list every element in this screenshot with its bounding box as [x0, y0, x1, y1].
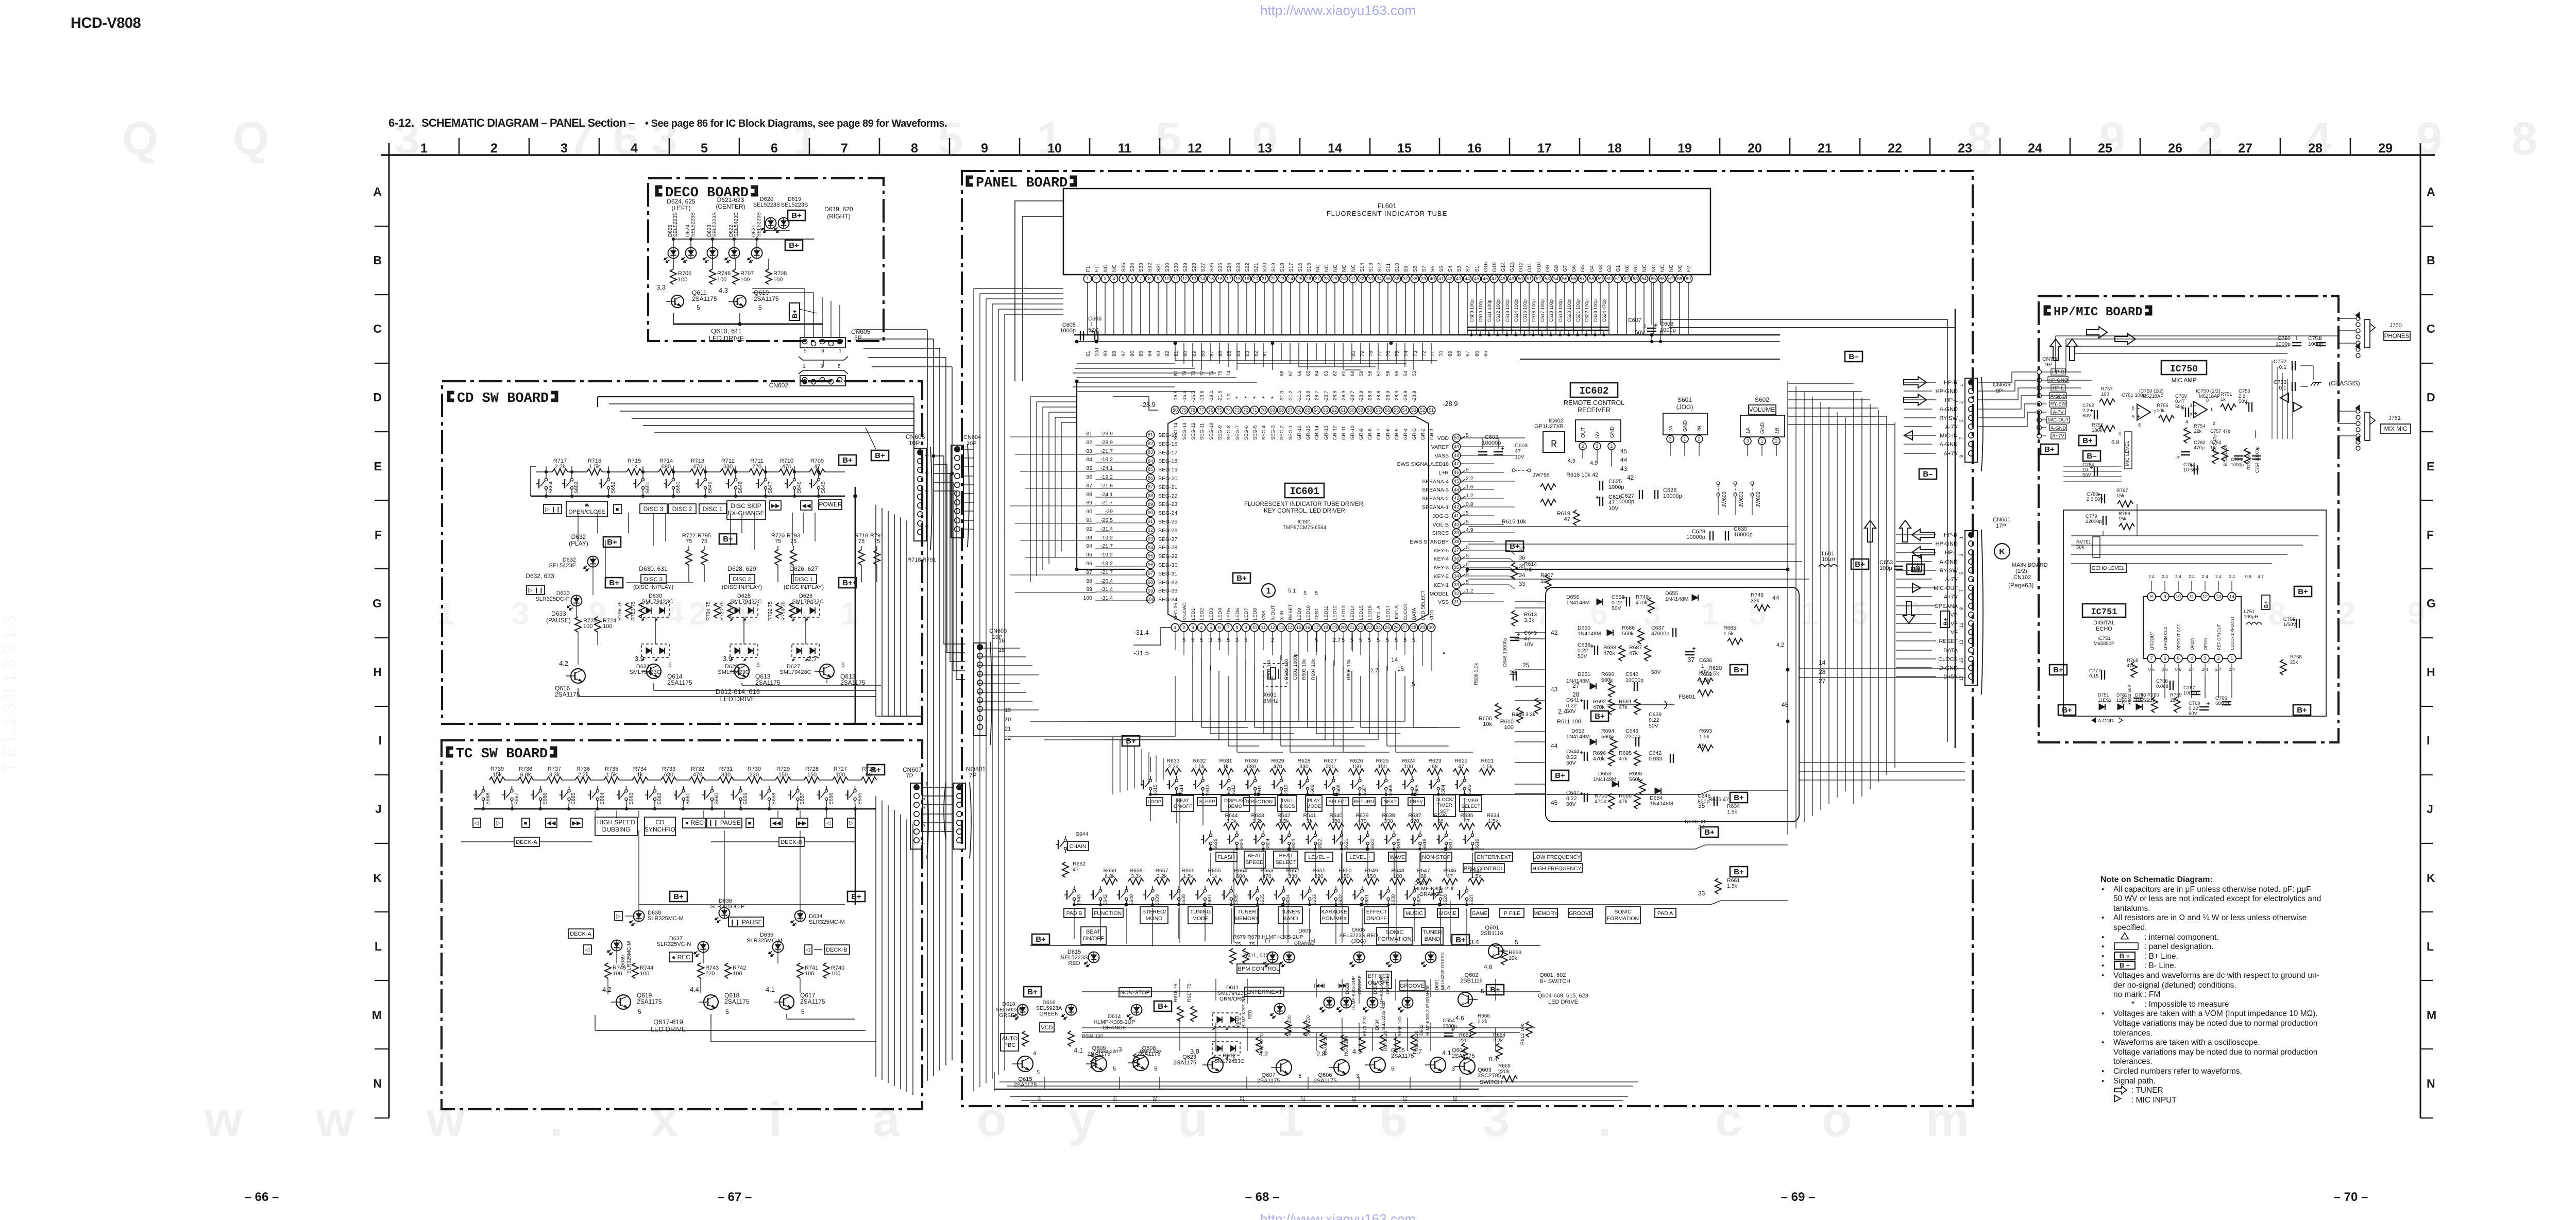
- svg-text:S1: S1: [1475, 265, 1480, 272]
- svg-text:71: 71: [1252, 408, 1257, 413]
- svg-text:GR-7: GR-7: [1376, 428, 1382, 440]
- svg-text:ECHO: ECHO: [2096, 626, 2112, 632]
- B+ rotated cn: [1940, 611, 1950, 628]
- key BEAT: [1244, 851, 1265, 868]
- resistor: [1062, 862, 1069, 877]
- resistor: [1128, 878, 1144, 885]
- svg-text:97: 97: [1086, 569, 1092, 575]
- wire: [674, 471, 690, 472]
- svg-text:GND: GND: [1609, 427, 1615, 438]
- svg-text:7: 7: [1139, 276, 1142, 281]
- svg-text:CHAIN: CHAIN: [1070, 843, 1087, 850]
- resistor: [1502, 1076, 1517, 1082]
- wire: [642, 471, 658, 472]
- svg-text:S617: S617: [1448, 839, 1454, 850]
- svg-text:3: 3: [1104, 276, 1106, 281]
- LED: [1341, 997, 1352, 1008]
- capacitor: [1654, 490, 1655, 499]
- svg-text:2.7: 2.7: [1333, 637, 1341, 643]
- svg-text:(CHASSIS): (CHASSIS): [2329, 380, 2360, 387]
- wire: [1179, 798, 1180, 943]
- svg-text:NC: NC: [1677, 265, 1683, 272]
- bus line 3: [1520, 359, 1780, 360]
- wire: [876, 546, 877, 550]
- svg-text:T E L 1 3 9 1 3 9 1 3: T E L 1 3 9 1 3 9 1 3: [0, 615, 20, 773]
- column tick 26: [2210, 138, 2211, 155]
- svg-text:EFFECT: EFFECT: [1368, 973, 1390, 979]
- row tick left: [375, 843, 389, 844]
- svg-text:SLR325MC-M: SLR325MC-M: [626, 941, 632, 974]
- wire to CN605: [813, 293, 814, 337]
- svg-text:JOG-A: JOG-A: [1394, 605, 1400, 620]
- svg-text:50: 50: [1518, 276, 1523, 281]
- svg-text:G13: G13: [1510, 262, 1515, 272]
- svg-text:X-IN: X-IN: [1279, 611, 1285, 620]
- svg-text:SML79423C: SML79423C: [629, 669, 660, 675]
- svg-text:9: 9: [1244, 625, 1247, 630]
- svg-text:NC: NC: [1324, 265, 1330, 272]
- svg-text:4: 4: [1033, 1050, 1036, 1057]
- svg-text:42: 42: [1551, 629, 1558, 636]
- svg-text:Q: Q: [122, 113, 158, 165]
- wire: [1799, 780, 1965, 781]
- wire bus: [578, 696, 876, 697]
- bus wire: [888, 805, 889, 1083]
- svg-text:4.2: 4.2: [1259, 1050, 1268, 1058]
- key ENTER/NEXT led: [1245, 987, 1284, 996]
- svg-text:B+: B+: [2044, 445, 2055, 454]
- svg-text:S651: S651: [645, 481, 651, 494]
- key GROOVE: [1568, 908, 1592, 918]
- resistor: [2212, 448, 2218, 464]
- svg-text:S14: S14: [1360, 263, 1365, 272]
- svg-text:⏏: ⏏: [584, 502, 589, 508]
- svg-text:K: K: [1999, 548, 2005, 556]
- key TIMER: [1460, 795, 1482, 811]
- svg-text:SONIC: SONIC: [1614, 909, 1632, 915]
- wire: [1904, 435, 1936, 436]
- B- opamp: [2083, 451, 2100, 461]
- svg-text:: Impossible to measure: : Impossible to measure: [2144, 1000, 2229, 1009]
- svg-text:R604 10k: R604 10k: [1311, 659, 1316, 680]
- wire: [2287, 379, 2288, 439]
- svg-text:44: 44: [1454, 487, 1459, 493]
- capacitor: [1599, 327, 1608, 328]
- resistor: [790, 550, 796, 565]
- B+ deco top: [788, 210, 805, 221]
- resistor: [1359, 1037, 1365, 1053]
- row tick left: [375, 431, 389, 432]
- svg-text:5.1: 5.1: [1288, 588, 1296, 594]
- capacitor: [1639, 490, 1640, 499]
- column tick 15: [1439, 138, 1440, 155]
- svg-text:S645: S645: [821, 481, 826, 494]
- wire: [2063, 476, 2122, 477]
- svg-text:1: 1: [803, 364, 806, 369]
- svg-text:96: 96: [1130, 350, 1136, 357]
- svg-text:RY-SW: RY-SW: [2050, 401, 2066, 407]
- svg-text:11: 11: [1959, 623, 1964, 628]
- svg-text:GR-8: GR-8: [1367, 428, 1373, 440]
- resistor: [733, 269, 739, 284]
- svg-text:57: 57: [1580, 276, 1585, 281]
- svg-text:22000p: 22000p: [2086, 519, 2102, 524]
- svg-text:GR-16: GR-16: [1297, 426, 1302, 440]
- board title DECO BOARD: [655, 185, 662, 196]
- svg-text:B+: B+: [791, 211, 802, 220]
- svg-text:1N4148M: 1N4148M: [1650, 801, 1673, 807]
- svg-text:3: 3: [1118, 1045, 1122, 1053]
- svg-text:68: 68: [1279, 408, 1284, 413]
- svg-text:PON/MPX: PON/MPX: [1322, 916, 1347, 922]
- svg-text:(▶▶): (▶▶): [1337, 983, 1349, 989]
- diode: [1590, 739, 1596, 745]
- svg-text:43: 43: [1454, 496, 1459, 501]
- svg-text:VOLUME: VOLUME: [1749, 406, 1775, 413]
- label DECK-B 2: [824, 945, 850, 954]
- svg-text:S27: S27: [1200, 263, 1206, 272]
- wire: [530, 466, 531, 496]
- svg-text:61: 61: [1341, 370, 1347, 376]
- svg-text:S22: S22: [1245, 263, 1250, 272]
- switch: [1064, 839, 1066, 841]
- wire: [1896, 587, 1936, 588]
- wire: [483, 804, 484, 809]
- svg-text:98: 98: [1148, 580, 1153, 585]
- svg-text:13: 13: [2216, 594, 2221, 599]
- resistor: [1180, 878, 1196, 885]
- svg-text:•: •: [2102, 942, 2104, 951]
- B+ wire: [855, 809, 856, 905]
- key GAME: [1471, 908, 1488, 918]
- svg-text:LED SELECT: LED SELECT: [1420, 590, 1426, 620]
- svg-text:HP-GND: HP-GND: [1936, 541, 1958, 547]
- svg-text:6: 6: [771, 141, 778, 156]
- wire: [688, 546, 689, 550]
- svg-text:75: 75: [701, 538, 707, 545]
- svg-text:S7: S7: [1421, 265, 1427, 272]
- resistor: [776, 603, 782, 618]
- svg-text:B+: B+: [609, 579, 619, 587]
- resistor: [727, 603, 734, 618]
- svg-text:1000p: 1000p: [1443, 1024, 1457, 1029]
- deck-a line: [461, 841, 514, 842]
- svg-text:MIC-OUT: MIC-OUT: [2048, 417, 2069, 423]
- svg-text:47: 47: [1564, 516, 1570, 522]
- transistor: [1430, 1057, 1446, 1073]
- svg-text:75: 75: [1249, 941, 1255, 947]
- svg-text:*: *: [1244, 395, 1247, 402]
- svg-text:N: N: [373, 1077, 382, 1090]
- resistor: [779, 469, 794, 475]
- key LOW FREQUENCY: [1533, 852, 1581, 861]
- svg-text:CN604: CN604: [963, 434, 981, 440]
- wire: [861, 546, 862, 550]
- svg-text:G3: G3: [1598, 265, 1604, 272]
- svg-text:9: 9: [1157, 276, 1159, 281]
- bus wire: [894, 514, 895, 716]
- bracket: [944, 782, 946, 840]
- svg-text:56: 56: [1385, 408, 1390, 413]
- svg-text:DATA: DATA: [1943, 648, 1958, 654]
- svg-text:NC: NC: [1351, 265, 1357, 272]
- svg-text:25: 25: [2098, 141, 2112, 156]
- svg-text:IC601: IC601: [1298, 519, 1312, 525]
- svg-text:S29: S29: [1183, 263, 1189, 272]
- wire: [861, 565, 862, 582]
- wire to CN605: [831, 301, 832, 337]
- key fwd marker: [615, 911, 622, 921]
- svg-text:9: 9: [1959, 607, 1964, 610]
- net A+7V cn750: [2051, 433, 2065, 439]
- svg-text:NC: NC: [1342, 265, 1347, 272]
- wire: [1799, 668, 1965, 669]
- svg-text:D: D: [373, 391, 382, 404]
- wire: [1896, 614, 1932, 615]
- switch: [1178, 889, 1180, 892]
- svg-text:-21.7: -21.7: [1100, 500, 1113, 506]
- svg-text:◀◀: ◀◀: [547, 820, 556, 826]
- key DISC 2: [669, 504, 696, 514]
- svg-text:5: 5: [1037, 1070, 1040, 1076]
- svg-text:0.9: 0.9: [2245, 574, 2251, 579]
- svg-text:-28.9: -28.9: [1385, 391, 1391, 402]
- svg-text:B+: B+: [2297, 706, 2307, 715]
- svg-text:S656: S656: [828, 792, 834, 805]
- svg-text:33: 33: [1368, 276, 1373, 281]
- switch: [854, 789, 856, 792]
- svg-text:45: 45: [1782, 701, 1789, 708]
- resistor: [874, 550, 880, 565]
- svg-text:66: 66: [1475, 350, 1480, 357]
- svg-text:SLEEP: SLEEP: [1199, 799, 1215, 805]
- svg-text:8: 8: [2150, 594, 2153, 599]
- svg-text:81: 81: [1086, 431, 1092, 437]
- junction: [704, 495, 706, 497]
- crystal X601: [1263, 664, 1287, 686]
- svg-text:41: 41: [1438, 276, 1444, 281]
- svg-text:100: 100: [773, 277, 783, 283]
- svg-text:B: B: [373, 253, 382, 267]
- wire: [608, 493, 609, 496]
- LED: [588, 556, 599, 567]
- svg-text:w: w: [204, 1092, 243, 1147]
- tube bus: [1074, 334, 1780, 335]
- wire: [562, 780, 575, 781]
- svg-text:•: •: [2102, 913, 2104, 922]
- svg-text:F1: F1: [1094, 266, 1100, 272]
- transistor: [734, 295, 746, 308]
- key TUNER BAND led: [1421, 927, 1443, 945]
- resistor: [1459, 823, 1475, 829]
- svg-text:SEG-17: SEG-17: [1158, 450, 1178, 456]
- svg-text:65: 65: [1651, 276, 1656, 281]
- svg-text:KEY-5: KEY-5: [1434, 548, 1449, 554]
- svg-text:B+: B+: [1704, 828, 1715, 837]
- svg-text:BEAT: BEAT: [1086, 929, 1100, 935]
- svg-text:72: 72: [1243, 408, 1248, 413]
- capacitor: [1714, 797, 1715, 806]
- wire: [648, 780, 661, 781]
- svg-text:c: c: [1715, 1092, 1742, 1147]
- svg-text:-31.4: -31.4: [1100, 595, 1113, 601]
- svg-text:SEL5223S: SEL5223S: [753, 202, 781, 208]
- capacitor: [1094, 331, 1095, 341]
- B+ led3: [1154, 1001, 1172, 1011]
- svg-text:18: 18: [1607, 141, 1622, 156]
- B+ cd led: [603, 537, 621, 547]
- resistor: [1639, 780, 1646, 795]
- svg-text:55: 55: [1394, 370, 1400, 376]
- svg-text:P FILE: P FILE: [1504, 910, 1520, 917]
- wire: [712, 239, 713, 247]
- wire: [505, 780, 518, 781]
- resistor: [1517, 707, 1523, 723]
- svg-text:OUT: OUT: [1581, 427, 1586, 438]
- column tick 21: [1859, 138, 1861, 155]
- svg-text:SEG-29: SEG-29: [1158, 553, 1178, 560]
- svg-text:2SA1175: 2SA1175: [1452, 1053, 1475, 1059]
- svg-text:30: 30: [1341, 276, 1346, 281]
- svg-text:D632: D632: [571, 533, 586, 540]
- signal arrow: [1904, 394, 1926, 405]
- svg-text:STEREO/: STEREO/: [1142, 909, 1166, 915]
- svg-text:2SA1175: 2SA1175: [724, 998, 750, 1005]
- switch: [1471, 834, 1473, 836]
- svg-text:15k: 15k: [2119, 516, 2127, 522]
- svg-text:10k: 10k: [1509, 955, 1518, 961]
- svg-text:SIRCS: SIRCS: [1432, 530, 1449, 536]
- svg-text:3: 3: [1959, 401, 1964, 404]
- wire to CN605: [822, 297, 823, 337]
- svg-text:3.4: 3.4: [1441, 984, 1450, 992]
- key AUTO PBC: [1001, 1033, 1019, 1051]
- net HP-L cn750: [2051, 385, 2065, 391]
- svg-text:VDD: VDD: [1429, 610, 1435, 620]
- svg-text:C615 100p: C615 100p: [1522, 299, 1528, 322]
- LED: [634, 911, 645, 922]
- svg-text:B+: B+: [1027, 988, 1038, 996]
- svg-text:DIRECTION: DIRECTION: [1246, 799, 1273, 805]
- wire: [787, 1019, 855, 1020]
- svg-text:TIMER: TIMER: [1437, 803, 1452, 808]
- svg-text:95: 95: [1086, 552, 1092, 558]
- svg-text:73: 73: [1234, 408, 1240, 413]
- svg-text:SEG-26: SEG-26: [1158, 528, 1178, 534]
- svg-text:70: 70: [1261, 408, 1266, 413]
- svg-text:5: 5: [1959, 419, 1964, 422]
- svg-text:100μH: 100μH: [2244, 614, 2258, 620]
- svg-text:B+: B+: [789, 241, 799, 250]
- svg-text:S628: S628: [1443, 894, 1448, 906]
- svg-text:SLR325MC-M: SLR325MC-M: [648, 916, 684, 922]
- svg-text:66: 66: [1659, 276, 1665, 281]
- svg-text:D624, 625: D624, 625: [667, 198, 696, 205]
- switch: [1099, 889, 1101, 892]
- svg-text:S12: S12: [1377, 263, 1383, 272]
- svg-text:9: 9: [924, 525, 929, 528]
- IC751 area box: [2063, 510, 2326, 716]
- svg-text:S659: S659: [743, 792, 749, 805]
- svg-text:50V: 50V: [1651, 669, 1661, 675]
- svg-text:IC750: IC750: [2170, 364, 2198, 375]
- capacitor: [2194, 465, 2195, 475]
- svg-text:50V: 50V: [1578, 653, 1587, 659]
- key SLEEP: [1197, 798, 1216, 806]
- key OPEN/CLOSE: [566, 501, 607, 517]
- key MUSIC: [1404, 908, 1425, 918]
- svg-text:65: 65: [1306, 370, 1311, 376]
- resistor: [1608, 682, 1615, 697]
- transistor: [1133, 1055, 1148, 1071]
- svg-text:100: 100: [613, 971, 622, 977]
- capacitor: [2296, 619, 2297, 628]
- B+ r611: [1591, 711, 1608, 721]
- capacitor: [1599, 481, 1600, 490]
- capacitor: [2170, 681, 2171, 690]
- svg-text:22: 22: [1270, 276, 1276, 281]
- svg-text:G15: G15: [1492, 262, 1498, 272]
- svg-text:0.033: 0.033: [1649, 756, 1662, 762]
- svg-text:5: 5: [1481, 988, 1484, 995]
- wire: [1896, 605, 1936, 606]
- svg-text:D651: D651: [1578, 671, 1590, 677]
- svg-text:H: H: [2427, 665, 2435, 679]
- wire: [1352, 632, 1353, 652]
- svg-text:All resistors are in Ω and ¼ W: All resistors are in Ω and ¼ W or less u…: [2113, 913, 2307, 922]
- resistor: [690, 469, 705, 475]
- wire: [777, 546, 778, 550]
- svg-text:PANEL BOARD: PANEL BOARD: [976, 176, 1067, 191]
- svg-text:0.1: 0.1: [2279, 385, 2286, 391]
- svg-text:SWITCH: SWITCH: [1480, 1079, 1502, 1086]
- LED: [1131, 1005, 1142, 1015]
- svg-text:DUBBING: DUBBING: [602, 826, 631, 833]
- svg-text:21: 21: [1818, 141, 1832, 156]
- junction: [734, 495, 737, 497]
- svg-text:FORMATION: FORMATION: [1607, 916, 1639, 922]
- board title PANEL BOARD: [966, 176, 973, 187]
- FL601 fluorescent indicator tube: [1063, 189, 1710, 275]
- svg-text:C611 100p: C611 100p: [1487, 300, 1492, 322]
- key LEVEL +: [1346, 852, 1374, 861]
- switch: [672, 478, 674, 481]
- key DISPLAY/: [1221, 795, 1249, 811]
- svg-text:EWS STANDBY: EWS STANDBY: [1410, 539, 1449, 545]
- svg-text:DISC 1: DISC 1: [794, 577, 812, 583]
- label VOLUME: [1749, 405, 1776, 415]
- switch: [607, 478, 609, 481]
- wire: [825, 471, 845, 472]
- svg-text:MIC-OUT: MIC-OUT: [1934, 585, 1958, 591]
- resistor: [1462, 1043, 1468, 1059]
- svg-text:5: 5: [697, 304, 700, 311]
- svg-text:15k: 15k: [2116, 493, 2125, 499]
- label MIX MIC: [2381, 424, 2411, 433]
- wire: [712, 259, 713, 269]
- dual LED: [1212, 1042, 1240, 1055]
- resistor: [1375, 769, 1390, 775]
- IC602 name box: [1570, 383, 1618, 397]
- svg-text:5: 5: [1515, 939, 1518, 946]
- bus wire: [875, 796, 876, 1077]
- LED: [752, 248, 762, 259]
- B+ vertical deco: [789, 303, 800, 320]
- svg-text:S644: S644: [1076, 831, 1089, 837]
- wire: [2063, 481, 2122, 482]
- svg-text:-26.5: -26.5: [1100, 517, 1113, 523]
- B+ led2: [1024, 987, 1041, 997]
